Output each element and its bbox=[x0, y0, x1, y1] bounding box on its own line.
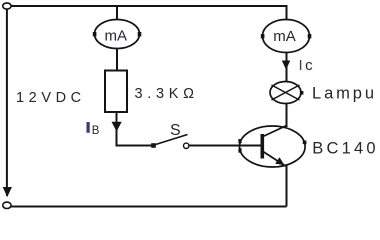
svg-text:S: S bbox=[170, 122, 181, 139]
svg-text:3.3KΩ: 3.3KΩ bbox=[135, 86, 199, 102]
svg-text:B: B bbox=[92, 125, 100, 137]
svg-text:mA: mA bbox=[105, 27, 128, 44]
svg-text:12VDC: 12VDC bbox=[16, 90, 86, 106]
svg-text:Lampu: Lampu bbox=[312, 84, 377, 102]
svg-text:Ic: Ic bbox=[299, 57, 316, 74]
svg-text:mA: mA bbox=[273, 28, 296, 45]
svg-text:BC140: BC140 bbox=[312, 140, 378, 158]
